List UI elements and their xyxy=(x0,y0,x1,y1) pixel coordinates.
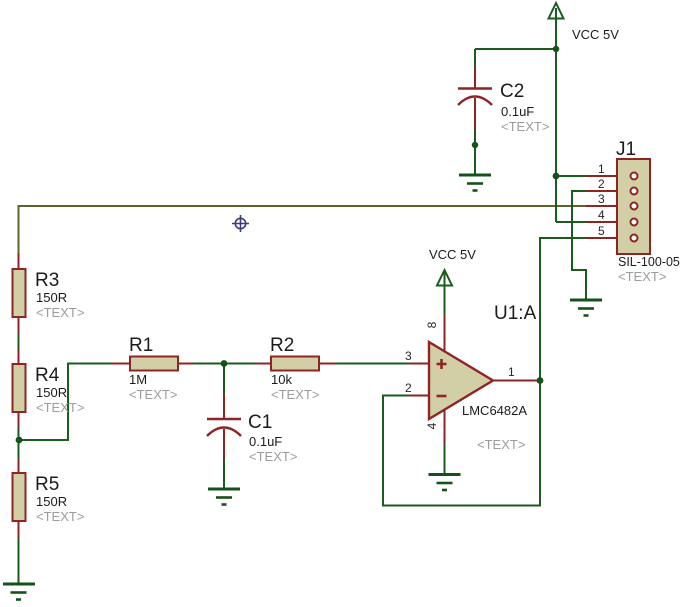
svg-text:J1: J1 xyxy=(616,139,636,160)
wire: VCC rail vertical (top VCC to J1 pins 1 and 4) xyxy=(555,8,557,222)
wire: divider tap from node A to R1 input xyxy=(19,364,112,441)
ground below J1 xyxy=(570,300,602,316)
op-amp U1 pin 4 lead xyxy=(444,409,446,443)
svg-text:R2: R2 xyxy=(270,335,294,356)
svg-text:<TEXT>: <TEXT> xyxy=(36,509,84,524)
ground bottom left (under R5) xyxy=(3,584,35,600)
svg-text:0.1uF: 0.1uF xyxy=(501,104,534,119)
ground under C2 xyxy=(459,175,491,191)
svg-text:4: 4 xyxy=(598,208,605,222)
svg-text:U1:A: U1:A xyxy=(494,303,537,324)
pin number 3 (J1) xyxy=(598,192,605,206)
svg-text:<TEXT>: <TEXT> xyxy=(618,269,666,284)
op-amp U1 pin 3 lead xyxy=(410,363,430,365)
power symbol VCC top rail xyxy=(549,3,564,19)
op-amp U1 pin 1 output lead xyxy=(492,380,538,382)
pin number 1 (op-amp output) xyxy=(508,365,515,379)
wire: olive net from left divider to J1 pin 3 (horizontal run) xyxy=(19,206,587,253)
svg-text:R5: R5 xyxy=(35,474,59,495)
wire: C2 bottom to ground xyxy=(474,49,476,175)
wire: R2 right lead to op-amp non-inverting input xyxy=(336,363,410,365)
connector J1 xyxy=(617,159,650,254)
label VCC 5V (top) xyxy=(572,27,619,42)
pin number 8 (op-amp V+) xyxy=(425,321,439,328)
output node junction (pin1/J1 pin5/feedback) xyxy=(537,377,544,384)
wire: C1 bottom to ground xyxy=(223,459,225,489)
junction on VCC rail at J1 pin 1 xyxy=(553,173,560,180)
svg-text:1: 1 xyxy=(598,162,605,176)
J1 pin 5 pad xyxy=(631,235,638,242)
label U1:A xyxy=(494,303,537,324)
J1 pin 3 lead xyxy=(586,205,617,207)
placeholder text C2 xyxy=(501,119,549,134)
svg-text:2: 2 xyxy=(405,381,412,395)
svg-text:0.1uF: 0.1uF xyxy=(249,434,282,449)
svg-text:150R: 150R xyxy=(36,290,67,305)
svg-text:1: 1 xyxy=(508,365,515,379)
wire: R1 right lead to node B xyxy=(194,363,255,365)
resistor R5 xyxy=(13,459,26,538)
value label C1 0.1uF xyxy=(249,434,282,449)
svg-text:3: 3 xyxy=(598,192,605,206)
label R4 xyxy=(35,365,60,386)
pin number 3 (op-amp non-inverting) xyxy=(405,349,412,363)
pin number 1 (J1) xyxy=(598,162,605,176)
svg-text:<TEXT>: <TEXT> xyxy=(249,449,297,464)
label R1 xyxy=(129,335,153,356)
label R2 xyxy=(270,335,294,356)
svg-text:R3: R3 xyxy=(35,270,59,291)
wire: VCC rail branch to C2 top xyxy=(475,48,556,50)
wire: VCC rail to J1 pin 1 xyxy=(556,175,586,177)
svg-text:R4: R4 xyxy=(35,365,60,386)
node B junction (R1/R2/C1) xyxy=(221,360,228,367)
svg-text:8: 8 xyxy=(425,321,439,328)
svg-text:<TEXT>: <TEXT> xyxy=(36,305,84,320)
placeholder text C1 xyxy=(249,449,297,464)
wire: R4 bottom to node A to R5 top xyxy=(18,428,20,460)
value label R4 150R xyxy=(36,385,67,400)
svg-text:<TEXT>: <TEXT> xyxy=(271,387,319,402)
pin number 2 (op-amp inverting) xyxy=(405,381,412,395)
svg-text:<TEXT>: <TEXT> xyxy=(501,119,549,134)
op-amp U1 pin 2 lead xyxy=(410,395,430,397)
svg-text:<TEXT>: <TEXT> xyxy=(477,437,525,452)
pin number 5 (J1) xyxy=(598,224,605,238)
placeholder text R5 xyxy=(36,509,84,524)
resistor R4 xyxy=(13,350,26,428)
svg-text:150R: 150R xyxy=(36,494,67,509)
J1 pin 1 lead xyxy=(586,175,617,177)
svg-text:R1: R1 xyxy=(129,335,153,356)
wire: node B down to C1 top xyxy=(223,364,225,395)
pin number 4 (op-amp V-) xyxy=(425,422,439,429)
placeholder text U1 xyxy=(477,437,525,452)
value label C2 0.1uF xyxy=(501,104,534,119)
placeholder text J1 xyxy=(618,269,666,284)
J1 pin 4 pad xyxy=(631,219,638,226)
value label R3 150R xyxy=(36,290,67,305)
svg-text:C2: C2 xyxy=(500,81,524,102)
power symbol VCC for op-amp xyxy=(437,270,452,286)
pin number 2 (J1) xyxy=(598,177,605,191)
op-amp U1 pin 8 lead xyxy=(444,315,446,352)
label VCC 5V (op-amp supply) xyxy=(429,247,476,262)
svg-text:VCC 5V: VCC 5V xyxy=(429,247,476,262)
placeholder text R3 xyxy=(36,305,84,320)
svg-text:5: 5 xyxy=(598,224,605,238)
svg-text:LMC6482A: LMC6482A xyxy=(462,403,527,418)
svg-text:<TEXT>: <TEXT> xyxy=(129,387,177,402)
placeholder text R4 xyxy=(36,400,84,415)
wire: feedback loop from output node to inverting input xyxy=(383,381,540,506)
wire: J1 pin 2 to ground below connector xyxy=(572,191,586,300)
wire: VCC rail to J1 pin 4 xyxy=(556,221,586,223)
svg-text:3: 3 xyxy=(405,349,412,363)
op-amp U1:A body xyxy=(429,342,493,419)
junction on C2 ground wire xyxy=(472,142,478,148)
label R5 xyxy=(35,474,59,495)
J1 pin 1 pad xyxy=(631,173,638,180)
placeholder text R2 xyxy=(271,387,319,402)
svg-text:<TEXT>: <TEXT> xyxy=(36,400,84,415)
value label R1 1M xyxy=(129,372,147,387)
wire: op-amp pin 4 to ground xyxy=(444,443,446,474)
wire: R3 bottom to R4 top xyxy=(18,334,20,350)
ground under C1 xyxy=(208,489,240,505)
label R3 xyxy=(35,270,59,291)
svg-text:C1: C1 xyxy=(248,412,272,433)
J1 pin 2 pad xyxy=(631,188,638,195)
value label LMC6482A xyxy=(462,403,527,418)
svg-text:1M: 1M xyxy=(129,372,147,387)
J1 pin 2 lead xyxy=(586,190,617,192)
wire: R5 bottom to ground xyxy=(18,538,20,585)
capacitor C2 xyxy=(458,67,492,129)
svg-text:4: 4 xyxy=(425,422,439,429)
svg-text:SIL-100-05: SIL-100-05 xyxy=(618,255,680,269)
wire: J1 pin 5 to op-amp output node xyxy=(540,238,586,381)
svg-text:150R: 150R xyxy=(36,385,67,400)
label J1 xyxy=(616,139,636,160)
wire: VCC arrow to op-amp pin 8 xyxy=(444,272,446,315)
resistor R3 xyxy=(13,253,26,334)
svg-text:2: 2 xyxy=(598,177,605,191)
J1 pin 3 pad xyxy=(631,203,638,210)
value label R2 10k xyxy=(271,372,292,387)
svg-text:VCC 5V: VCC 5V xyxy=(572,27,619,42)
ground under op-amp pin 4 xyxy=(429,475,461,491)
value label J1 SIL-100-05 xyxy=(618,255,680,269)
svg-text:10k: 10k xyxy=(271,372,292,387)
value label R5 150R xyxy=(36,494,67,509)
label C1 xyxy=(248,412,272,433)
J1 pin 5 lead xyxy=(586,237,617,239)
placeholder text R1 xyxy=(129,387,177,402)
resistor R2 xyxy=(255,357,336,371)
J1 pin 4 lead xyxy=(586,221,617,223)
junction on VCC rail at C2 branch xyxy=(553,46,559,52)
pin number 4 (J1) xyxy=(598,208,605,222)
label C2 xyxy=(500,81,524,102)
capacitor C1 xyxy=(207,395,241,460)
origin marker xyxy=(232,215,249,232)
resistor R1 xyxy=(112,357,194,371)
node A junction (R4/R5 tap) xyxy=(16,437,23,444)
